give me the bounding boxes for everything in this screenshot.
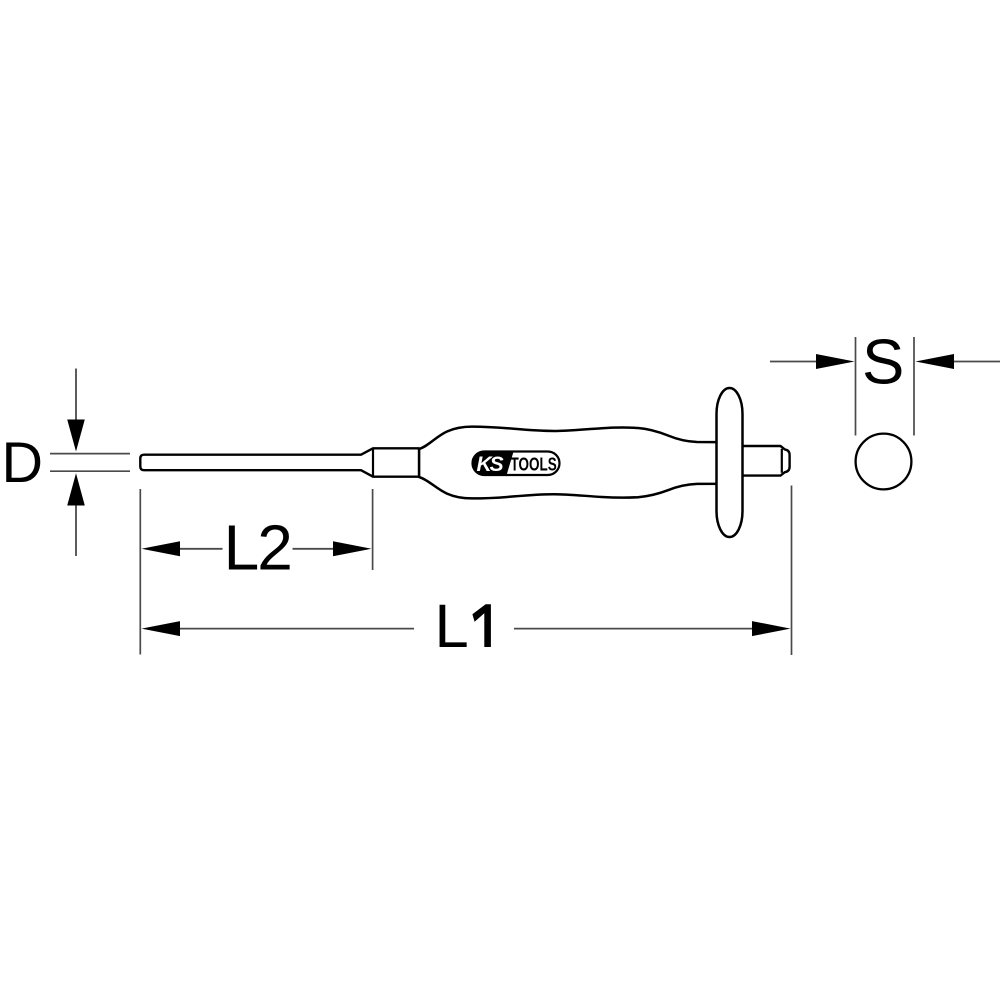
dimension D: upper arrowhead (down) bbox=[67, 420, 85, 452]
dimension S: right arrowhead (pointing left) bbox=[916, 354, 955, 369]
dimension S: left extension line bbox=[855, 337, 857, 436]
dimension S: right extension line bbox=[913, 337, 915, 436]
svg-text:L: L bbox=[435, 592, 469, 661]
shared left extension line for L1 and L2 bbox=[139, 489, 141, 655]
dimension D: lower extension line bbox=[50, 470, 130, 472]
dimension S: left line bbox=[770, 361, 817, 363]
dimension L2: left arrowhead bbox=[142, 541, 181, 556]
wire: pin end bevel line bbox=[781, 449, 783, 473]
dimension D: upper extension line bbox=[50, 453, 130, 455]
dimension L2: right line segment bbox=[293, 548, 334, 550]
end view circle bbox=[856, 434, 912, 490]
dimension D: label bbox=[2, 431, 44, 495]
svg-text:D: D bbox=[2, 431, 44, 495]
dimension D: lower arrowhead (up) bbox=[67, 473, 85, 505]
dimension L1: left arrowhead bbox=[142, 621, 181, 636]
dimension L1: right line segment bbox=[514, 628, 752, 630]
L1 right extension line bbox=[791, 486, 793, 656]
L2 right extension line bbox=[372, 489, 374, 570]
dimension D: lower arrow line bbox=[75, 495, 77, 556]
dimension L1: right arrowhead bbox=[752, 621, 791, 636]
handle body with wavy grip outline bbox=[419, 427, 732, 499]
svg-text:L2: L2 bbox=[224, 512, 291, 584]
dimension D: upper arrow line bbox=[75, 369, 77, 431]
dimension L2: left line segment bbox=[180, 548, 223, 550]
dimension S: right line bbox=[954, 361, 1000, 363]
svg-text:TOOLS: TOOLS bbox=[511, 455, 557, 476]
svg-text:S: S bbox=[862, 328, 904, 398]
dimension L2: right arrowhead bbox=[333, 541, 372, 556]
svg-text:KS: KS bbox=[477, 453, 504, 476]
punch shaft with taper and ferrule bbox=[140, 448, 419, 476]
hand guard flange bbox=[717, 388, 743, 537]
KS TOOLS logo on handle bbox=[471, 450, 560, 477]
wire: striking pin behind guard bbox=[741, 446, 790, 476]
dimension L1: left line segment bbox=[180, 628, 414, 630]
dimension S: left arrowhead (pointing right) bbox=[816, 354, 855, 369]
